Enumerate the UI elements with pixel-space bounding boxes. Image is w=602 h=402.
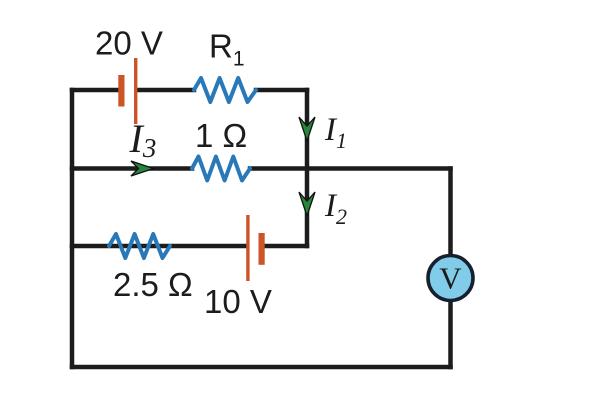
svg-text:20 V: 20 V [95, 25, 163, 62]
svg-text:V: V [439, 261, 462, 296]
svg-text:10 V: 10 V [204, 283, 272, 320]
svg-text:1 Ω: 1 Ω [195, 117, 247, 154]
svg-text:2.5 Ω: 2.5 Ω [113, 266, 193, 303]
